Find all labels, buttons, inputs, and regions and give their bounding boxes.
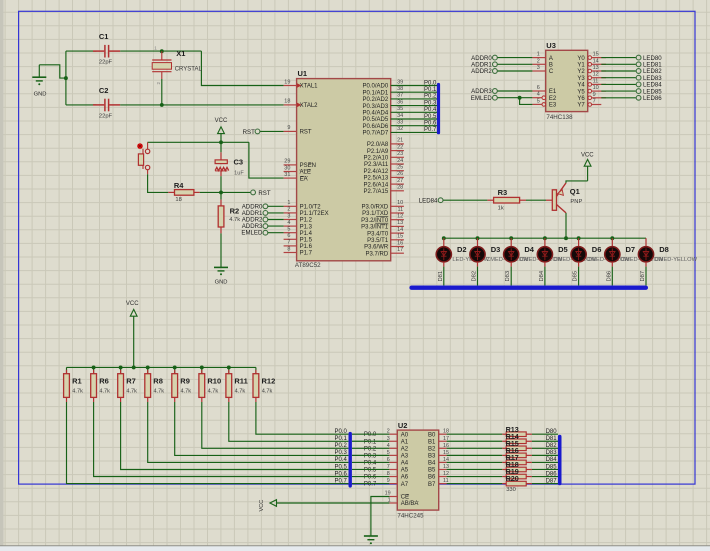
svg-text:D86: D86 — [546, 471, 558, 477]
node rail R8 — [146, 365, 150, 369]
pin 23 U1 right P2 — [391, 156, 404, 158]
svg-text:VCC: VCC — [581, 153, 594, 159]
svg-text:A7: A7 — [401, 482, 409, 488]
svg-text:P0.2: P0.2 — [364, 446, 377, 452]
svg-text:P1.3: P1.3 — [300, 224, 313, 230]
capacitor C3 — [220, 142, 222, 152]
svg-text:3: 3 — [287, 213, 290, 219]
svg-text:P0.6: P0.6 — [424, 121, 437, 127]
pin 33 U1 right P0 — [391, 125, 437, 127]
pin 5 U1 left — [284, 232, 297, 234]
pin 14 U2 B4 — [439, 461, 447, 463]
svg-text:D85: D85 — [573, 271, 579, 282]
wire vcc rail — [148, 141, 249, 143]
pin 21 U1 right P2 — [391, 143, 404, 145]
svg-text:D5: D5 — [558, 245, 568, 254]
node vcc rail C3 — [219, 140, 223, 144]
svg-text:P0.4: P0.4 — [424, 107, 437, 113]
op U2 body — [397, 430, 438, 510]
svg-text:4.7k: 4.7k — [99, 388, 110, 394]
svg-text:18: 18 — [284, 99, 290, 105]
pin 26 U1 right P2 — [391, 176, 404, 178]
svg-text:E3: E3 — [549, 103, 557, 109]
pin 35 U1 right P0 — [391, 111, 437, 113]
svg-text:X1: X1 — [176, 49, 185, 58]
capacitor C1 — [93, 50, 104, 52]
led D8 — [645, 238, 647, 246]
left window edge — [0, 0, 4, 546]
svg-text:30: 30 — [284, 165, 290, 171]
node rail D7 — [610, 236, 614, 240]
svg-text:P0.5: P0.5 — [334, 464, 347, 470]
pin 14 U1 right P3 — [391, 232, 404, 234]
svg-text:D82: D82 — [472, 271, 478, 282]
resistor R6 — [93, 367, 95, 373]
wire RST to chip — [260, 130, 284, 132]
wire ADDR3 to U3 — [498, 90, 533, 92]
svg-text:D83: D83 — [546, 450, 558, 456]
svg-text:R20: R20 — [506, 474, 519, 483]
op U3 body — [546, 50, 588, 111]
svg-text:D87: D87 — [546, 478, 558, 484]
svg-text:RST: RST — [300, 130, 312, 136]
wire trunk C1-C2 — [65, 51, 67, 105]
node rail D5 — [543, 236, 547, 240]
pin 18 U2 B0 — [439, 433, 447, 435]
pin 34 U1 right P0 — [391, 118, 437, 120]
svg-text:A6: A6 — [401, 475, 409, 481]
node collector rail — [564, 236, 568, 240]
resistor R15 — [502, 447, 506, 449]
node rail R6 — [92, 365, 96, 369]
pin 2 U3 B — [532, 63, 545, 65]
wire C1 left — [66, 50, 97, 52]
svg-text:9: 9 — [593, 92, 596, 98]
pin 15 U1 right P3 — [391, 239, 404, 241]
pin 6 U3 E1 — [532, 90, 545, 92]
svg-text:21: 21 — [397, 138, 403, 144]
power VCC left arrow — [270, 500, 277, 507]
led D3 — [477, 238, 479, 246]
resistor R18 — [502, 468, 506, 470]
wire ADDR1 to U1 — [268, 212, 284, 214]
svg-text:35: 35 — [397, 106, 403, 112]
pin 6 U1 left — [284, 238, 297, 240]
svg-text:P0.2: P0.2 — [424, 94, 437, 100]
svg-text:R11: R11 — [234, 377, 247, 386]
svg-text:P2.3/A11: P2.3/A11 — [364, 162, 389, 168]
svg-text:P3.0/RXD: P3.0/RXD — [362, 205, 389, 211]
svg-text:R8: R8 — [153, 377, 163, 386]
svg-text:LED84: LED84 — [419, 197, 438, 204]
node EMLED E3 — [518, 96, 522, 100]
svg-text:B2: B2 — [428, 447, 436, 453]
bus P0 at U1 — [437, 85, 440, 133]
pin 10 U1 right P3 — [391, 205, 404, 207]
svg-text:4.7k: 4.7k — [262, 388, 273, 394]
svg-text:EMLED: EMLED — [471, 95, 493, 102]
svg-text:AT89C52: AT89C52 — [295, 262, 321, 269]
wire R2 to ground — [220, 233, 222, 267]
pin 4 U1 left — [284, 225, 297, 227]
svg-text:P3.3/INT1: P3.3/INT1 — [361, 225, 389, 231]
svg-text:4: 4 — [387, 443, 390, 449]
svg-text:P0.0: P0.0 — [424, 80, 437, 86]
wire ADDR3 to U1 — [268, 225, 284, 227]
pin 11 U1 right P3 — [391, 212, 404, 214]
svg-text:1k: 1k — [498, 205, 504, 211]
crystal X1 — [161, 51, 163, 60]
pin 13 U1 right P3 — [391, 225, 404, 227]
svg-text:P3.6/WR: P3.6/WR — [364, 245, 389, 251]
svg-text:1: 1 — [537, 52, 540, 58]
svg-text:P0.1: P0.1 — [424, 87, 437, 93]
wire R20 to D87 — [532, 483, 558, 485]
node junction C1C2 — [64, 76, 68, 80]
svg-text:14: 14 — [397, 227, 403, 233]
wire B3 to R16 — [447, 454, 503, 456]
svg-text:7: 7 — [287, 240, 290, 246]
svg-text:R12: R12 — [262, 377, 276, 386]
pin 18 U1 left — [284, 104, 297, 106]
svg-text:P0.7/AD7: P0.7/AD7 — [363, 131, 389, 137]
svg-text:Y2: Y2 — [577, 69, 585, 75]
svg-text:P3.1/TXD: P3.1/TXD — [362, 211, 389, 217]
terminal LED85 — [636, 89, 641, 94]
pin 4 U2 A2 — [389, 447, 397, 449]
wire EMLED to E3 — [520, 98, 533, 105]
svg-text:P3.4/T0: P3.4/T0 — [367, 231, 389, 237]
pin 14 U3 Y1 — [588, 63, 592, 67]
svg-text:GND: GND — [215, 280, 228, 286]
svg-text:B: B — [549, 63, 553, 69]
svg-text:P0.1: P0.1 — [364, 439, 377, 445]
wire bus to U2 A3 — [352, 454, 389, 456]
svg-text:4: 4 — [537, 92, 540, 98]
wire R10 to P0.2 — [202, 402, 349, 448]
svg-text:P0.3: P0.3 — [364, 453, 377, 459]
svg-text:P0.7: P0.7 — [364, 482, 377, 488]
led D5 — [544, 238, 546, 246]
wire ADDR2 to U3 — [498, 70, 533, 72]
wire ADDR2 to U1 — [268, 219, 284, 221]
wire B6 to R19 — [447, 476, 503, 478]
svg-text:10: 10 — [397, 200, 403, 206]
svg-text:4.7k: 4.7k — [154, 388, 165, 394]
pin 30 U1 left — [284, 171, 297, 173]
terminal LED86 — [636, 95, 641, 100]
svg-text:VCC: VCC — [215, 118, 228, 124]
svg-text:RST: RST — [258, 190, 270, 197]
svg-text:ADDR2: ADDR2 — [471, 68, 492, 75]
pin 25 U1 right P2 — [391, 170, 404, 172]
svg-text:D84: D84 — [546, 457, 558, 463]
wire C2 to XTAL2 — [120, 104, 283, 106]
pin 12 U3 Y3 — [588, 76, 592, 80]
svg-text:E2: E2 — [549, 96, 557, 102]
wire D5 to bus — [544, 262, 546, 267]
pin 17 U2 B1 — [439, 440, 447, 442]
pin 19 U2 CE — [389, 496, 397, 498]
svg-text:P1.0/T2: P1.0/T2 — [300, 205, 322, 211]
wire Y0 to LED80 — [601, 57, 636, 59]
pin 3 U2 A1 — [389, 440, 397, 442]
pin 2 U2 A0 — [389, 433, 397, 435]
svg-text:11: 11 — [397, 207, 403, 213]
resistor R12 — [255, 367, 257, 373]
svg-text:37: 37 — [397, 93, 403, 99]
wire B7 to R20 — [447, 483, 503, 485]
wire B0 to R13 — [447, 433, 503, 435]
terminal LED80 — [636, 55, 641, 60]
resistor R2 — [220, 192, 222, 199]
pin 2 U1 left — [284, 212, 297, 214]
terminal LED84 — [636, 82, 641, 87]
node vcc fan — [132, 365, 136, 369]
resistor R17 — [502, 461, 506, 463]
svg-text:P0.6: P0.6 — [364, 475, 377, 481]
svg-text:7: 7 — [387, 464, 390, 470]
svg-text:4.7k: 4.7k — [72, 388, 83, 394]
svg-text:2: 2 — [287, 207, 290, 213]
wire EA link — [249, 142, 284, 178]
wire Y4 to LED84 — [601, 83, 636, 85]
svg-text:A: A — [549, 56, 553, 62]
bottom scrollbar strip — [0, 546, 710, 551]
svg-text:6: 6 — [387, 457, 390, 463]
svg-text:8: 8 — [387, 471, 390, 477]
pin 5 U3 E3 — [532, 103, 545, 105]
svg-text:29: 29 — [284, 159, 290, 165]
pin 3 U1 left — [284, 219, 297, 221]
terminal RST node — [251, 190, 256, 195]
svg-text:18: 18 — [175, 197, 181, 203]
svg-text:PSEN: PSEN — [300, 163, 316, 169]
wire R8 to P0.4 — [148, 402, 349, 462]
wire D4 to bus — [510, 262, 512, 267]
svg-text:P0.4/AD4: P0.4/AD4 — [363, 111, 389, 117]
svg-text:P0.1: P0.1 — [334, 436, 347, 442]
svg-text:VCC: VCC — [259, 500, 265, 512]
svg-text:XTAL1: XTAL1 — [300, 84, 319, 90]
wire R17 to D84 — [532, 461, 558, 463]
node crystal bottom — [160, 103, 164, 107]
svg-text:14: 14 — [593, 58, 599, 64]
pin 9 U3 Y6 — [588, 96, 592, 100]
svg-text:D2: D2 — [457, 245, 467, 254]
svg-text:P0.3: P0.3 — [334, 450, 347, 456]
svg-text:P3.7/RD: P3.7/RD — [366, 251, 389, 257]
svg-text:74HC138: 74HC138 — [546, 114, 573, 121]
wire R18 to D85 — [532, 468, 558, 470]
terminal LED81 — [636, 62, 641, 67]
svg-text:D83: D83 — [505, 271, 511, 282]
svg-text:P2.6/A14: P2.6/A14 — [364, 182, 389, 188]
svg-text:9: 9 — [387, 478, 390, 484]
svg-text:R2: R2 — [230, 206, 240, 215]
wire LED rail — [444, 237, 646, 239]
wire ADDR0 to U3 — [498, 57, 533, 59]
svg-text:P1.4: P1.4 — [300, 231, 313, 237]
node rail D2 — [442, 236, 446, 240]
svg-text:Q1: Q1 — [570, 187, 580, 196]
resistor R11 — [228, 367, 230, 373]
svg-text:GND: GND — [34, 92, 47, 98]
svg-text:EMLED: EMLED — [241, 230, 263, 237]
svg-text:5: 5 — [537, 98, 540, 104]
svg-text:E1: E1 — [549, 89, 557, 95]
svg-text:R3: R3 — [498, 188, 508, 197]
svg-text:B0: B0 — [428, 432, 436, 438]
wire R14 to D81 — [532, 440, 558, 442]
svg-text:D7: D7 — [626, 245, 636, 254]
svg-text:U2: U2 — [398, 421, 408, 430]
svg-text:P2.5/A13: P2.5/A13 — [364, 176, 389, 182]
svg-text:36: 36 — [397, 99, 403, 105]
svg-text:C1: C1 — [99, 32, 109, 41]
pin 10 U3 Y5 — [588, 89, 592, 93]
svg-text:B5: B5 — [428, 468, 436, 474]
wire bus to U2 A2 — [352, 447, 389, 449]
pin 7 U1 left — [284, 245, 297, 247]
wire D8 to bus — [645, 262, 647, 267]
node RST — [219, 190, 223, 194]
svg-text:P2.7/A15: P2.7/A15 — [364, 189, 389, 195]
resistor R20 — [502, 483, 506, 485]
svg-text:D81: D81 — [546, 436, 558, 442]
wire B4 to R17 — [447, 461, 503, 463]
svg-text:C2: C2 — [99, 86, 109, 95]
button actuator — [137, 143, 143, 149]
pin 8 U1 left — [284, 252, 297, 254]
svg-text:P2.2/A10: P2.2/A10 — [364, 156, 389, 162]
pin 28 U1 right P2 — [391, 190, 404, 192]
svg-text:22pF: 22pF — [99, 60, 113, 66]
svg-text:Y0: Y0 — [577, 56, 585, 62]
svg-text:19: 19 — [284, 79, 290, 85]
svg-text:39: 39 — [397, 79, 403, 85]
svg-text:31: 31 — [284, 172, 290, 178]
svg-text:P0.3/AD3: P0.3/AD3 — [363, 104, 389, 110]
svg-text:P3.5/T1: P3.5/T1 — [367, 238, 389, 244]
pin 1 U2 ABBA — [389, 502, 397, 504]
pin 37 U1 right P0 — [391, 98, 437, 100]
pin 4 U3 E2 — [532, 97, 545, 99]
svg-text:P0.3: P0.3 — [424, 100, 437, 106]
node rail D6 — [577, 236, 581, 240]
svg-text:P0.4: P0.4 — [364, 460, 377, 466]
svg-text:U1: U1 — [298, 69, 308, 78]
svg-text:C: C — [549, 69, 554, 75]
svg-text:CRYSTAL: CRYSTAL — [175, 66, 203, 72]
svg-text:P0.4: P0.4 — [334, 457, 347, 463]
svg-text:12: 12 — [593, 72, 599, 78]
pin 31 U1 left — [284, 177, 297, 179]
svg-text:24: 24 — [397, 158, 403, 164]
bus DB horizontal — [412, 286, 646, 290]
pin 17 U1 right P3 — [391, 252, 404, 254]
wire R4 to RST node — [200, 191, 251, 193]
node rail R10 — [200, 365, 204, 369]
svg-text:P3.2/INT0: P3.2/INT0 — [361, 218, 389, 224]
svg-text:CMED-YELLOW: CMED-YELLOW — [655, 257, 698, 263]
led D4 — [510, 238, 512, 246]
svg-text:4.7k: 4.7k — [208, 388, 219, 394]
svg-text:P0.5/AD5: P0.5/AD5 — [363, 117, 389, 123]
svg-text:5: 5 — [387, 450, 390, 456]
push button — [147, 142, 149, 149]
svg-text:3: 3 — [387, 436, 390, 442]
wire ADDR0 to U1 — [268, 205, 284, 207]
svg-text:Y5: Y5 — [577, 89, 585, 95]
svg-text:2: 2 — [387, 429, 390, 435]
wire R13 to D80 — [532, 433, 558, 435]
wire D2 to bus — [443, 262, 445, 267]
wire B5 to R18 — [447, 468, 503, 470]
svg-text:U3: U3 — [546, 41, 556, 50]
wire R12 to P0.0 — [256, 402, 349, 434]
svg-text:4.7k: 4.7k — [181, 388, 192, 394]
svg-text:P0.2: P0.2 — [334, 443, 347, 449]
ground R2 — [214, 266, 228, 268]
wire R3 to Q1 base — [526, 199, 546, 201]
svg-text:D87: D87 — [640, 271, 646, 282]
svg-text:16: 16 — [397, 240, 403, 246]
wire Q1 collector to LED rail — [565, 213, 567, 238]
svg-text:ALE: ALE — [300, 170, 311, 176]
pin 15 U2 B3 — [439, 454, 447, 456]
pin arrow XTAL1 — [297, 84, 301, 88]
svg-text:P2.0/A8: P2.0/A8 — [367, 142, 389, 148]
svg-text:P0.6/AD6: P0.6/AD6 — [363, 124, 389, 130]
wire R15 to D82 — [532, 447, 558, 449]
wire R19 to D86 — [532, 476, 558, 478]
svg-text:P0.7: P0.7 — [334, 478, 347, 484]
resistor R19 — [502, 476, 506, 478]
svg-text:4.7k: 4.7k — [229, 217, 240, 223]
wire C1 to crystal top — [120, 50, 201, 52]
wire Y6 to LED86 — [601, 97, 636, 99]
svg-text:330: 330 — [506, 487, 516, 493]
svg-text:6: 6 — [537, 85, 540, 91]
svg-text:74HC245: 74HC245 — [397, 513, 424, 520]
wire bus to U2 A5 — [352, 468, 389, 470]
svg-text:13: 13 — [397, 220, 403, 226]
resistor R1 — [66, 367, 68, 373]
svg-text:P0.6: P0.6 — [334, 471, 347, 477]
svg-text:22: 22 — [397, 144, 403, 150]
wire CE down — [371, 497, 390, 537]
bus P0 left of U2 — [349, 434, 352, 486]
svg-text:32: 32 — [397, 126, 403, 132]
svg-text:PNP: PNP — [570, 199, 582, 205]
svg-text:Y3: Y3 — [577, 76, 585, 82]
pin 12 U2 B6 — [439, 476, 447, 478]
transistor Q1 — [546, 199, 552, 201]
wire bus to U2 A0 — [352, 433, 389, 435]
svg-text:26: 26 — [397, 171, 403, 177]
pin 24 U1 right P2 — [391, 163, 404, 165]
wire Y1 to LED81 — [601, 63, 636, 65]
wire D3 to bus — [477, 262, 479, 267]
wire bus to U2 A6 — [352, 476, 389, 478]
svg-text:D8: D8 — [659, 245, 669, 254]
svg-text:R7: R7 — [126, 377, 136, 386]
wire D7 to bus — [611, 262, 613, 267]
svg-text:P1.7: P1.7 — [300, 251, 313, 257]
svg-text:Y4: Y4 — [577, 83, 585, 89]
node rail R9 — [173, 365, 177, 369]
